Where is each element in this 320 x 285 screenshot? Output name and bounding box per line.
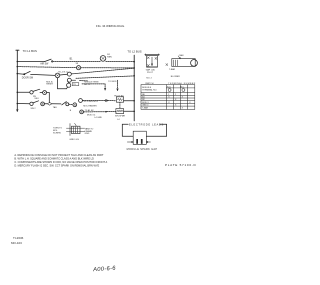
wire TD dashes right	[80, 80, 88, 82]
handwritten mark	[92, 266, 117, 274]
svg-text:BLOWER: BLOWER	[171, 76, 181, 78]
label module terminals	[84, 81, 98, 85]
coil CR1	[60, 72, 72, 76]
label ground lug left	[53, 128, 63, 135]
svg-text:RESET: RESET	[46, 84, 54, 86]
wire rung 2 dashed	[17, 67, 76, 68]
svg-text:IGN XFMR: IGN XFMR	[115, 116, 126, 118]
electrode leads loop	[122, 124, 166, 136]
switch S3	[30, 89, 40, 94]
svg-text:GND LUG: GND LUG	[69, 139, 79, 141]
switch S5	[52, 102, 69, 106]
svg-text:TD A1 B2: TD A1 B2	[85, 109, 95, 112]
wire rung4 to rung5	[47, 93, 50, 103]
svg-text:SW 2: SW 2	[31, 108, 37, 110]
wire L1 bus	[16, 50, 19, 111]
wire branch TD down	[58, 78, 67, 89]
svg-text:B: B	[70, 110, 72, 112]
wire rung 4 left	[17, 91, 29, 93]
lamp B1	[100, 56, 106, 62]
wire rung 1 left	[17, 61, 45, 63]
arrow module lead 1	[104, 88, 106, 90]
wire coil CR2 dashes	[71, 79, 75, 81]
switch S4	[30, 101, 39, 106]
wire ignition rung	[80, 110, 116, 114]
junction dots L1 bus	[17, 61, 19, 105]
ignition transformer box	[116, 109, 124, 114]
wire heater rung	[79, 99, 116, 103]
svg-text:FAN: FAN	[107, 55, 112, 58]
node L2 bus label	[127, 50, 141, 54]
svg-text:T-BAR: T-BAR	[169, 68, 176, 71]
svg-text:A00-6-6: A00-6-6	[92, 266, 117, 274]
label blower below	[169, 68, 180, 78]
title text	[96, 24, 125, 28]
svg-text:CAM: CAM	[179, 54, 184, 57]
svg-text:MODULE SPARK GAP: MODULE SPARK GAP	[127, 148, 158, 151]
svg-text:T-BAR: T-BAR	[142, 107, 148, 110]
coil CR2	[67, 78, 71, 82]
relay contact TD-1	[55, 73, 60, 78]
wire rung 3 left	[17, 73, 24, 76]
heater HTR box	[116, 97, 123, 102]
wire rung 2 right dashed	[81, 67, 134, 69]
label lamp B1	[107, 54, 112, 58]
wire rung 1 dashed	[53, 60, 100, 62]
svg-text:D. MERCURY FLASH /2 SEC. SW. C: D. MERCURY FLASH /2 SEC. SW. CCT SPARK O…	[14, 163, 99, 167]
wire xfmr to bus	[124, 110, 135, 112]
label ground lug right	[85, 127, 94, 135]
svg-text:B. WITH L.H. SQUARE AND SCHMAT: B. WITH L.H. SQUARE AND SCHMATC CLASS A …	[14, 156, 94, 160]
wire rung 3 right dashed	[76, 76, 134, 78]
junction dots L2 bus	[133, 61, 135, 112]
table text	[142, 87, 191, 110]
module spark gap	[127, 131, 150, 144]
connector circle rung5 end	[69, 103, 77, 107]
svg-text:N.O.: N.O.	[167, 87, 172, 89]
svg-text:TD: TD	[73, 84, 76, 86]
svg-text:B1: B1	[70, 59, 74, 61]
svg-text:SCREW: SCREW	[53, 132, 61, 134]
svg-text:TO L2 BUS: TO L2 BUS	[127, 50, 141, 54]
svg-text:AIR SW: AIR SW	[40, 62, 49, 65]
svg-text:C. COMPONENTS ARE SHOWN IN OFF: C. COMPONENTS ARE SHOWN IN OFF, NO VALVE…	[14, 160, 107, 164]
svg-text:TAS: TAS	[53, 106, 58, 109]
wire module lead 2 vertical	[117, 80, 119, 89]
label MOL block	[46, 80, 54, 85]
blower motor pictorial	[166, 56, 198, 66]
svg-text:ELECTRODE LEADS: ELECTRODE LEADS	[129, 122, 164, 126]
wire HTR to bus	[124, 100, 135, 102]
label under ignition rung	[87, 114, 102, 119]
switch S1 air switch	[45, 59, 53, 62]
svg-text:L4 GND: L4 GND	[94, 117, 102, 119]
svg-text:N.C.: N.C.	[181, 87, 185, 89]
svg-text:TI-2636: TI-2636	[13, 236, 24, 240]
bracket plate pictorial	[145, 54, 160, 67]
svg-text:L4: L4	[117, 119, 120, 121]
svg-text:FIG. 34 WIRING DIAG.: FIG. 34 WIRING DIAG.	[96, 24, 125, 28]
label pilot leads	[114, 95, 124, 97]
connector X circle rung 2	[77, 66, 81, 70]
wire box1 to box2	[119, 102, 121, 108]
wire rung 1 right dashed	[106, 60, 134, 62]
notes block	[14, 153, 107, 168]
svg-text:TD-1 N.O.: TD-1 N.O.	[58, 71, 68, 73]
label bracket plate	[146, 69, 156, 80]
svg-text:TERMINAL NO.: TERMINAL NO.	[142, 88, 157, 91]
wire L2 bus	[133, 55, 135, 121]
svg-text:TD-1 MOL HTR: TD-1 MOL HTR	[83, 101, 98, 103]
wire coil CR1 dashes	[71, 68, 134, 74]
svg-text:TO MOD: TO MOD	[108, 81, 117, 83]
ground lug pictorial	[66, 123, 84, 135]
connector X circle rung 5	[41, 102, 45, 106]
svg-text:GND: GND	[85, 133, 90, 135]
fuse diamond	[45, 102, 52, 105]
svg-text:MOL HEATER: MOL HEATER	[83, 104, 97, 107]
svg-text:PILOT: PILOT	[147, 72, 154, 74]
svg-text:A. REPRODUCE CONSOLE DO NOT PR: A. REPRODUCE CONSOLE DO NOT PROJECT TALK…	[14, 153, 103, 157]
coil TD	[66, 82, 70, 89]
terminal table	[141, 85, 195, 110]
wire module dashed with corner	[82, 84, 105, 89]
svg-text:DOOR SW: DOOR SW	[22, 78, 34, 80]
svg-text:GND 4: GND 4	[142, 105, 149, 107]
svg-text:xx: xx	[76, 62, 79, 65]
svg-text:SSU: SSU	[34, 98, 39, 100]
label box TD	[72, 83, 79, 86]
svg-text:TO L1 BUS: TO L1 BUS	[23, 49, 37, 53]
table captions	[145, 82, 196, 85]
switch S2 door switch	[24, 71, 55, 75]
node L1 bus label	[23, 49, 37, 53]
arrow module lead 2	[117, 89, 119, 91]
svg-text:NO. 2: NO. 2	[146, 77, 152, 79]
svg-text:PLATE 57100-D: PLATE 57100-D	[165, 163, 196, 167]
svg-text:MOD 3: MOD 3	[142, 102, 149, 104]
wire rung 5 left	[17, 103, 29, 105]
svg-text:MO-103: MO-103	[11, 241, 22, 245]
connector X circle rung 4	[40, 91, 47, 95]
